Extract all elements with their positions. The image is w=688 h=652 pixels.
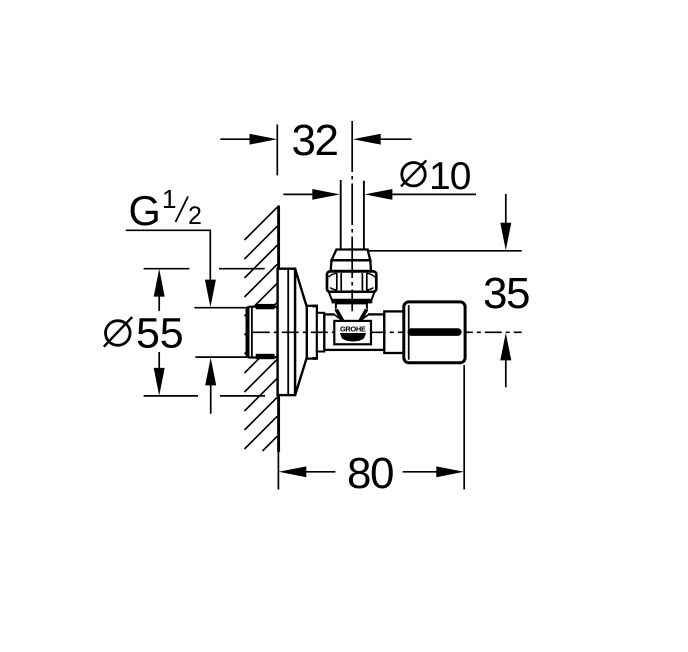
seat funnel fill	[335, 309, 369, 322]
dimension line Ø10 left tail	[283, 193, 313, 195]
extension line Ø55 bottom right segment	[220, 395, 265, 397]
arrowhead 80 right	[436, 466, 464, 477]
seat funnel outer right line	[359, 315, 368, 322]
handle	[404, 302, 465, 363]
svg-text:32: 32	[292, 116, 338, 165]
arrow shaft 35 upper	[505, 194, 507, 224]
leader line G 1/2 horizontal	[126, 229, 211, 231]
extension line Ø55 top left segment	[144, 268, 190, 270]
leader line G 1/2 vertical	[209, 230, 211, 280]
threaded nipple G 1/2	[247, 304, 278, 359]
compression fitting collar	[331, 260, 371, 271]
inlet pipe left wall	[340, 180, 342, 249]
arrowhead Ø10 left	[312, 189, 340, 200]
arrowhead 32 right	[353, 134, 381, 145]
escutcheon rim	[307, 305, 318, 360]
label Ø55 diameter symbol	[104, 317, 132, 347]
escutcheon cone	[295, 269, 307, 395]
arrowhead 32 left	[250, 134, 278, 145]
extension line from wall to 80 dimension	[277, 452, 279, 490]
svg-text:80: 80	[347, 449, 393, 498]
fraction slash	[176, 197, 189, 223]
arrowhead 35 up	[500, 333, 511, 361]
arrowhead 35 down	[500, 223, 511, 251]
extension line Ø55 top right segment	[219, 268, 265, 270]
inlet pipe right wall	[363, 181, 365, 250]
label Ø10 diameter symbol	[401, 160, 426, 186]
arrowhead Ø10 right	[365, 189, 393, 200]
svg-text:1: 1	[162, 184, 176, 214]
dimension line 32 left tail	[220, 138, 250, 140]
svg-text:G: G	[129, 187, 161, 234]
dimension line 80 right segment	[403, 471, 437, 473]
seat funnel right side	[360, 310, 367, 322]
dimension line 32 right tail	[380, 138, 412, 140]
arrowhead 80 left	[279, 466, 307, 477]
nut lower cone	[329, 292, 375, 300]
outlet cylinder	[384, 311, 404, 353]
arrow shaft thread up	[210, 385, 212, 414]
seat funnel outer left line	[335, 315, 344, 322]
center line horizontal	[253, 331, 522, 333]
wall face line	[277, 206, 280, 453]
handle inner edge line	[408, 305, 410, 360]
arrowhead G 1/2 down	[205, 280, 216, 308]
svg-text:2: 2	[188, 202, 202, 230]
extension line thread top	[194, 307, 249, 309]
compression hex nut	[327, 271, 376, 291]
reference line at inlet plane for 35 dimension	[368, 250, 521, 252]
extension line from handle to 80 dimension	[463, 365, 465, 490]
escutcheon base cylinder	[278, 269, 296, 395]
extension line Ø55 bottom left segment	[144, 395, 198, 397]
svg-text:55: 55	[136, 309, 183, 357]
GROHE badge	[334, 321, 371, 344]
svg-text:35: 35	[483, 269, 529, 318]
dimension line 80 left segment	[306, 471, 336, 473]
arrowhead Ø55 up	[154, 269, 165, 297]
extension line 32 dimension left	[276, 125, 278, 176]
escutcheon base contour line	[287, 270, 289, 395]
handle groove	[408, 328, 462, 336]
wall hatching	[245, 207, 278, 451]
svg-text:GROHE: GROHE	[340, 324, 366, 333]
arrow shaft Ø55 upper	[158, 296, 160, 311]
arrowhead thread up	[205, 358, 216, 386]
shoulder band	[332, 300, 373, 304]
center line vertical	[351, 121, 353, 311]
step cylinder	[317, 313, 324, 352]
compression fitting cap	[332, 250, 371, 261]
arrowhead Ø55 down	[154, 368, 165, 396]
arrow shaft Ø55 lower	[158, 352, 160, 369]
seat block	[336, 303, 367, 310]
svg-text:10: 10	[429, 155, 471, 198]
valve body	[324, 314, 384, 350]
extension line thread bottom	[195, 356, 247, 358]
seat funnel left side	[336, 310, 343, 322]
arrow shaft 35 lower	[505, 360, 507, 388]
dimension line Ø10 right tail	[392, 193, 476, 195]
